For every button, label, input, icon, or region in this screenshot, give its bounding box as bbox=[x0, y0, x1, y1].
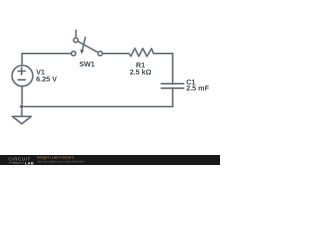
footer black bar bbox=[0, 155, 220, 165]
junction node dot bbox=[20, 105, 23, 108]
svg-text:http://circuitlab.com/c/bqkL7v: http://circuitlab.com/c/bqkL7v9XrohV bbox=[37, 159, 84, 163]
main circuit strokes bbox=[12, 30, 184, 124]
svg-text:2.5 mF: 2.5 mF bbox=[186, 83, 209, 92]
junction node dot halo bbox=[20, 104, 24, 108]
footer logo squiggle row bbox=[8, 162, 24, 164]
labels bbox=[36, 60, 209, 93]
svg-text:2.5 kΩ: 2.5 kΩ bbox=[130, 67, 152, 76]
switch SW1 arrowhead bbox=[80, 50, 84, 54]
soft halo underlay of circuit strokes bbox=[12, 30, 184, 124]
svg-text:6.25 V: 6.25 V bbox=[36, 74, 57, 83]
switch SW1 arrowhead halo bbox=[80, 49, 85, 55]
svg-text:SW1: SW1 bbox=[79, 60, 95, 69]
svg-text:LAB: LAB bbox=[25, 161, 34, 165]
